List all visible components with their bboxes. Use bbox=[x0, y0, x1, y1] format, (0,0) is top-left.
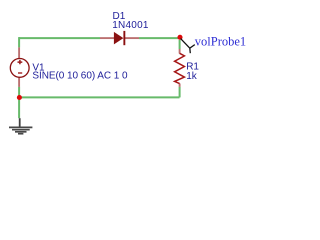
svg-text:1N4001: 1N4001 bbox=[112, 20, 149, 31]
svg-text:1k: 1k bbox=[186, 71, 198, 82]
svg-text:SINE(0 10 60) AC 1 0: SINE(0 10 60) AC 1 0 bbox=[32, 71, 128, 82]
svg-text:volProbe1: volProbe1 bbox=[195, 35, 246, 49]
